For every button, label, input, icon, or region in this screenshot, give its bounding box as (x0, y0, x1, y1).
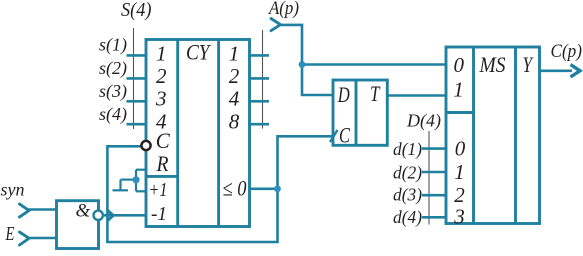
svg-text:0: 0 (454, 53, 465, 77)
svg-text:2: 2 (454, 183, 465, 207)
svg-text:1: 1 (156, 41, 167, 65)
svg-text:s(3): s(3) (99, 81, 127, 102)
svg-text:C: C (339, 123, 351, 148)
svg-text:+1: +1 (149, 179, 168, 201)
svg-text:R: R (156, 151, 169, 176)
svg-text:1: 1 (454, 160, 465, 184)
svg-text:CY: CY (186, 40, 212, 65)
svg-text:s(1): s(1) (99, 35, 127, 56)
svg-text:MS: MS (479, 52, 506, 77)
svg-text:-1: -1 (151, 203, 167, 225)
svg-text:≤ 0: ≤ 0 (223, 176, 247, 201)
svg-text:E: E (5, 224, 15, 245)
svg-text:1: 1 (229, 41, 240, 65)
svg-text:3: 3 (453, 205, 465, 229)
svg-text:A(p): A(p) (267, 0, 299, 19)
svg-text:4: 4 (156, 109, 167, 133)
svg-text:3: 3 (155, 87, 167, 111)
svg-text:D(4): D(4) (406, 111, 441, 132)
svg-text:2: 2 (156, 64, 167, 88)
svg-text:0: 0 (455, 137, 466, 161)
svg-text:d(2): d(2) (393, 163, 422, 184)
svg-text:2: 2 (229, 64, 240, 88)
svg-text:S(4): S(4) (121, 0, 152, 21)
svg-text:C(p): C(p) (551, 41, 583, 62)
svg-text:T: T (370, 81, 381, 106)
svg-text:D: D (337, 82, 350, 107)
svg-text:4: 4 (229, 87, 240, 111)
svg-text:d(4): d(4) (393, 207, 422, 228)
svg-text:d(1): d(1) (393, 139, 422, 160)
svg-text:d(3): d(3) (393, 185, 422, 206)
svg-text:1: 1 (453, 78, 464, 102)
svg-text:s(2): s(2) (99, 58, 127, 79)
svg-text:s(4): s(4) (99, 104, 127, 125)
svg-text:8: 8 (229, 109, 240, 133)
svg-text:&: & (76, 201, 91, 222)
svg-text:syn: syn (1, 180, 25, 200)
